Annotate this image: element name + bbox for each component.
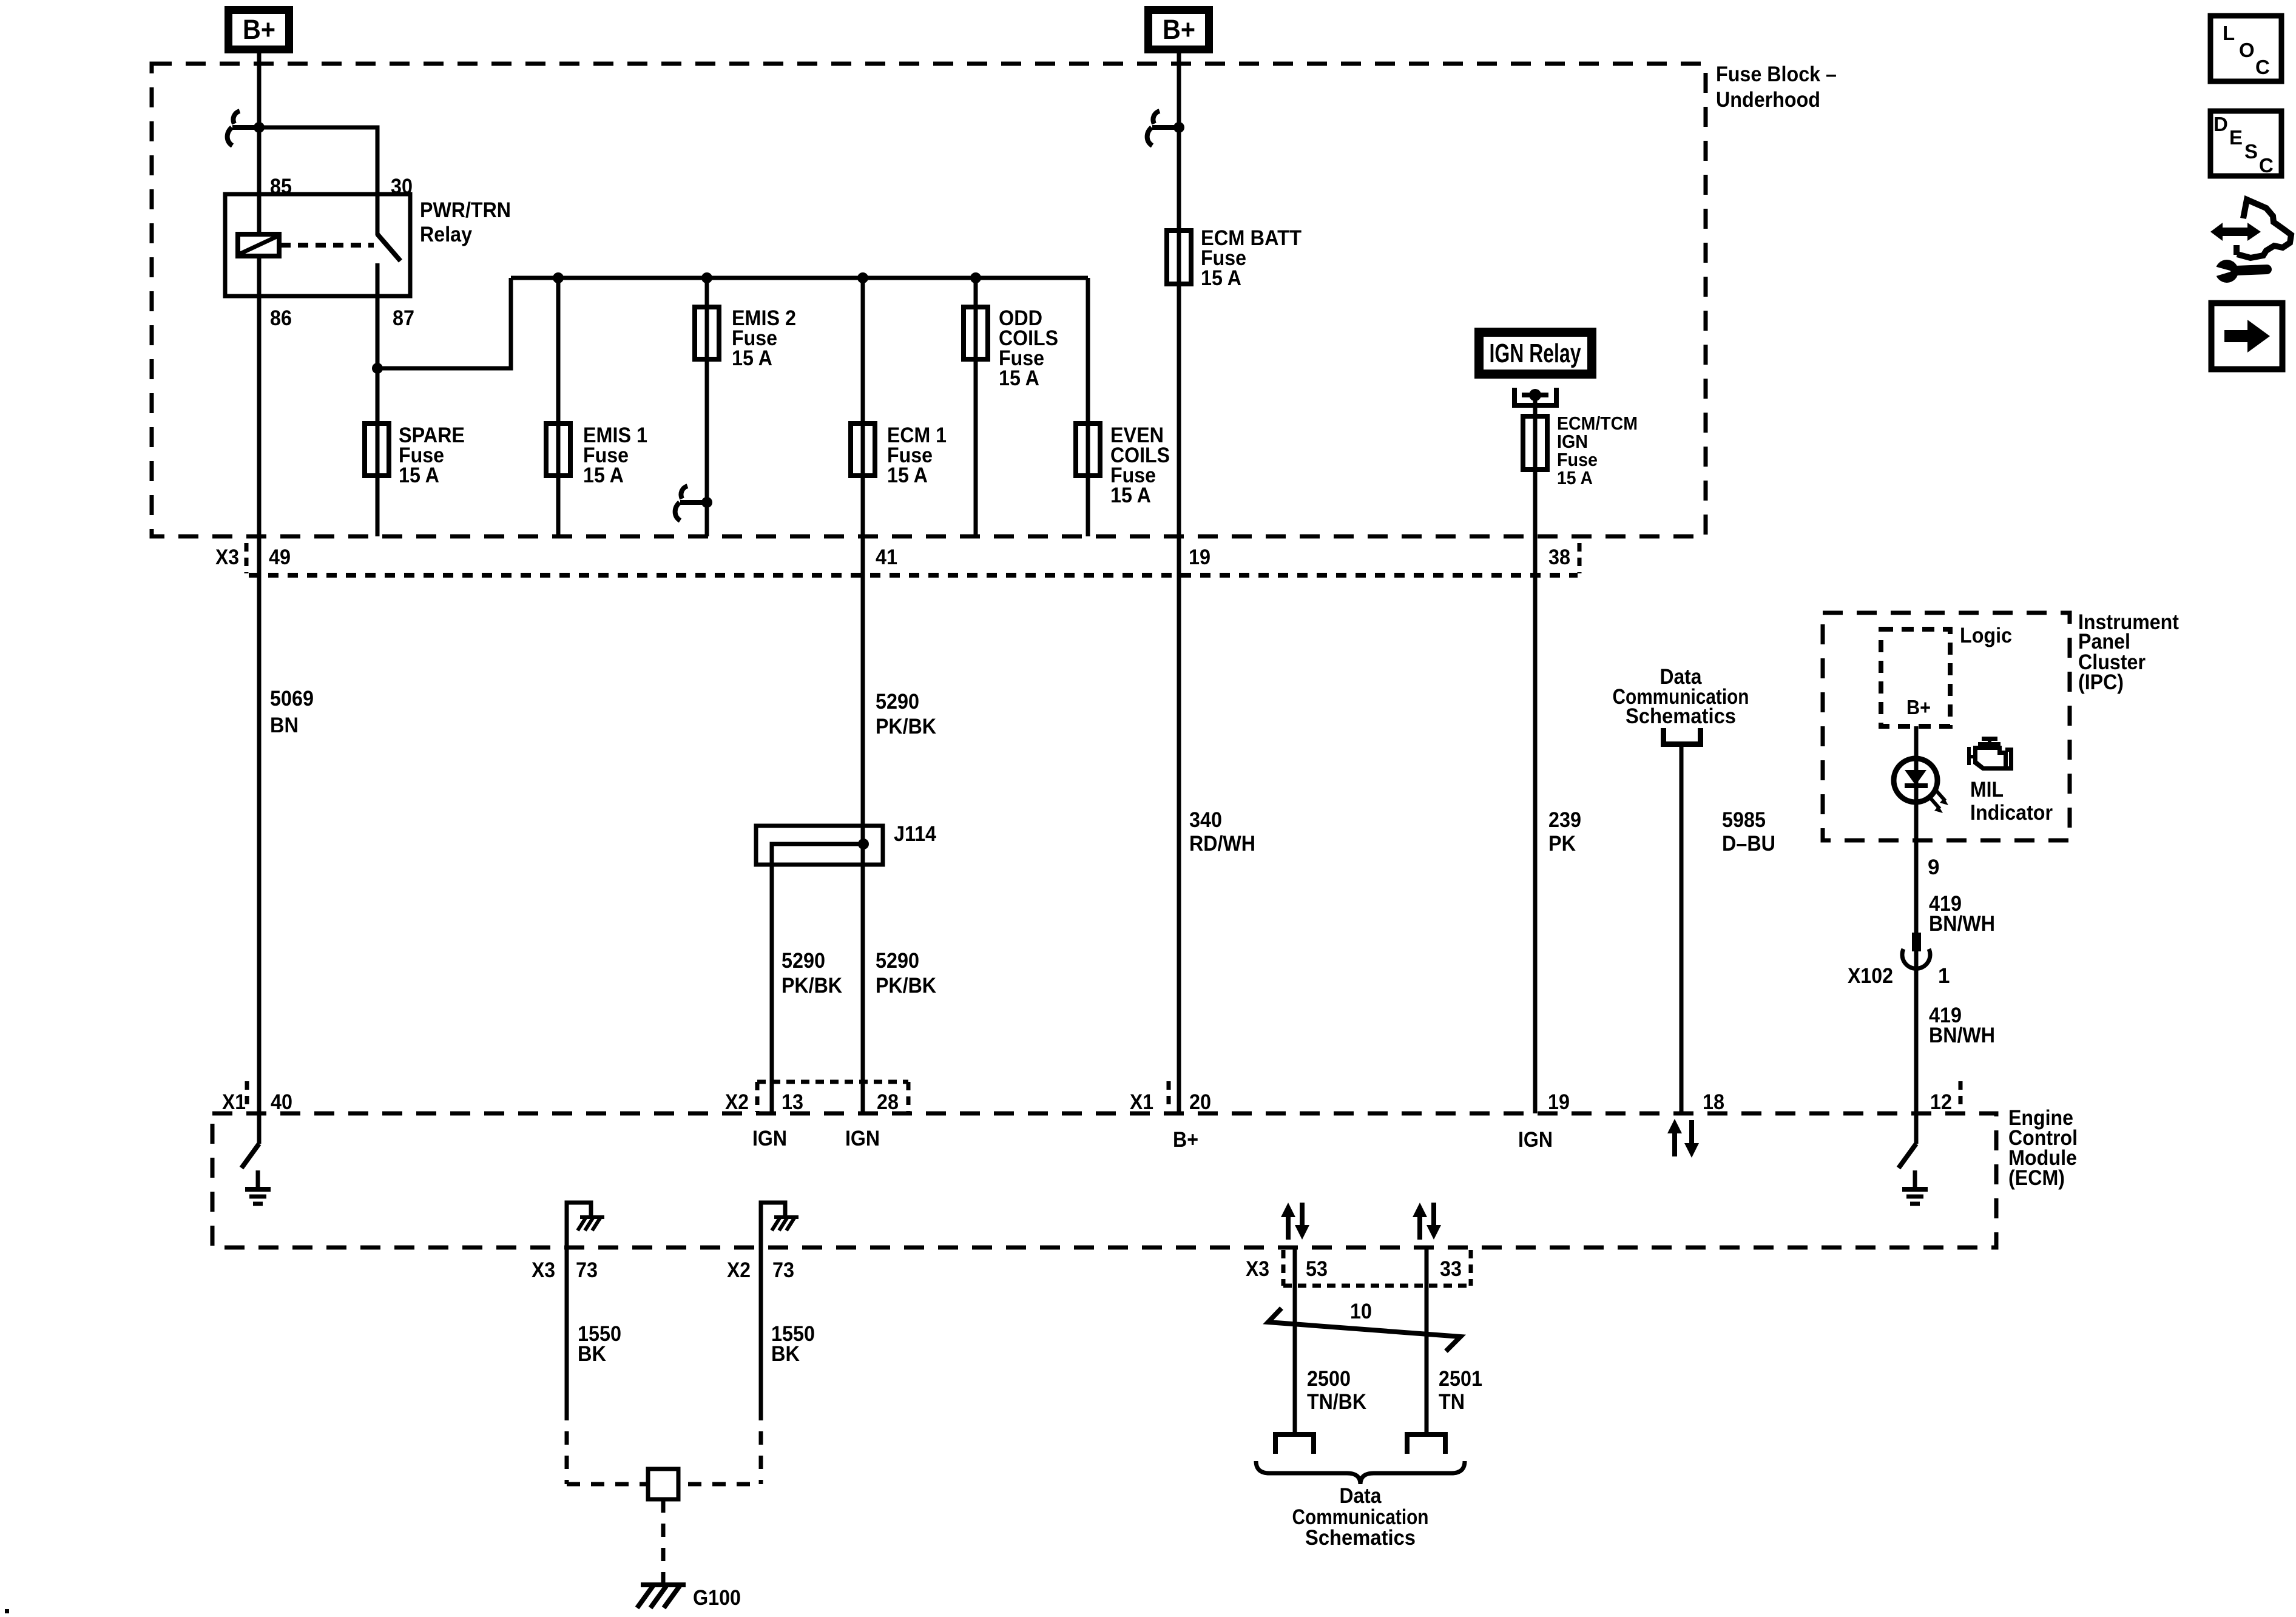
svg-text:BK: BK: [771, 1342, 800, 1366]
IPC label: [2078, 610, 2179, 694]
B+ power symbol left: [229, 10, 289, 50]
svg-text:15 A: 15 A: [583, 464, 624, 487]
IGN Relay label box: [1479, 333, 1592, 374]
svg-text:20: 20: [1189, 1090, 1211, 1114]
connector X3 fuse block output row: [215, 543, 1579, 575]
svg-text:5985: 5985: [1722, 808, 1766, 832]
ECM pin 12 label: [1930, 1081, 1960, 1114]
svg-text:MIL: MIL: [1970, 778, 2004, 802]
wire label 5290 PK/BK upper: [876, 690, 936, 738]
splice junction J114: [756, 822, 936, 1113]
twisted pair marker: [1268, 1300, 1460, 1351]
ECM label: [2008, 1106, 2078, 1190]
connector X1 pin 20: [1130, 1081, 1211, 1152]
wire bus drop EVEN COILS: [1086, 278, 1090, 536]
svg-text:86: 86: [270, 306, 292, 330]
svg-text:(IPC): (IPC): [2078, 670, 2124, 694]
wire label 5290 PK/BK lower left: [782, 949, 842, 998]
dashed ground bus to G100: [567, 1482, 761, 1487]
svg-text:5290: 5290: [782, 949, 825, 973]
svg-text:O: O: [2239, 39, 2255, 61]
wire label 239 PK: [1548, 808, 1581, 856]
svg-text:C: C: [2259, 154, 2274, 177]
relay switch blade: [377, 234, 400, 261]
svg-text:1: 1: [1938, 964, 1950, 988]
svg-text:Schematics: Schematics: [1626, 704, 1736, 728]
svg-text:X3: X3: [215, 545, 239, 569]
svg-text:PWR/TRN: PWR/TRN: [420, 198, 511, 222]
svg-text:G100: G100: [693, 1586, 741, 1610]
MIL LED indicator: [1894, 758, 1948, 813]
wire label 5985 D-BU: [1722, 808, 1775, 856]
IGN relay contact bracket: [1514, 388, 1556, 405]
svg-text:X2: X2: [725, 1090, 749, 1114]
fuse EMIS 1 15A: [546, 424, 647, 487]
wire circuit 5985 D-BU to ECM pin 18: [1680, 746, 1684, 1113]
fuse block label: [1716, 62, 1837, 112]
MIL engine icon: [1967, 737, 2013, 771]
svg-text:X1: X1: [222, 1090, 246, 1114]
fuse ECM/TCM IGN 15A: [1523, 413, 1638, 488]
CAN data arrows at ECM pin 33: [1413, 1203, 1441, 1240]
connector X2 pins 13 28: [725, 1082, 908, 1150]
wire label 5290 PK/BK lower right: [876, 949, 936, 998]
svg-text:IGN Relay: IGN Relay: [1490, 339, 1581, 368]
svg-text:D–BU: D–BU: [1722, 832, 1775, 856]
svg-text:IGN: IGN: [752, 1127, 787, 1150]
MIL indicator label: [1970, 778, 2053, 825]
svg-text:85: 85: [270, 175, 292, 198]
wire label 340 RD/WH: [1189, 808, 1255, 856]
clip splice on left B+ wire: [228, 111, 259, 146]
svg-text:E: E: [2229, 126, 2243, 149]
svg-text:IGN: IGN: [845, 1127, 880, 1150]
fuse EMIS 2 15A: [695, 306, 796, 370]
svg-text:12: 12: [1930, 1090, 1952, 1114]
svg-text:S: S: [2244, 140, 2258, 163]
wire IGN relay output circuit 239 PK to ECM pin 19: [1533, 395, 1538, 1113]
relay coil: [238, 234, 279, 256]
svg-text:PK/BK: PK/BK: [876, 974, 936, 998]
forward arrow legend box: [2212, 303, 2283, 370]
page dot: [5, 1609, 9, 1613]
svg-text:10: 10: [1350, 1300, 1372, 1323]
svg-text:X3: X3: [532, 1258, 555, 1282]
wire bus drop ECM 1 circuit 5290: [861, 278, 865, 1113]
svg-text:5069: 5069: [270, 687, 314, 711]
svg-text:15 A: 15 A: [1110, 484, 1151, 507]
svg-text:239: 239: [1548, 808, 1581, 832]
svg-text:PK/BK: PK/BK: [782, 974, 842, 998]
car diagnostic icon: [2208, 200, 2291, 283]
inline connector X102: [1848, 933, 1950, 988]
fuse ECM BATT 15A: [1167, 226, 1302, 290]
serial data arrows at pin 18: [1667, 1119, 1699, 1158]
CAN data arrows at ECM pin 53: [1281, 1203, 1309, 1240]
ground symbol pin 40: [245, 1170, 271, 1204]
svg-text:15 A: 15 A: [1557, 467, 1593, 488]
wire labels 2500 TN/BK: [1307, 1367, 1366, 1414]
svg-text:30: 30: [391, 175, 413, 198]
instrument panel cluster dashed box: [1823, 613, 2070, 840]
svg-text:Schematics: Schematics: [1305, 1526, 1416, 1550]
svg-text:5290: 5290: [876, 690, 919, 714]
svg-text:15 A: 15 A: [887, 464, 928, 487]
wire label 419 BN/WH lower: [1929, 1004, 1995, 1047]
data communication schematics header: [1613, 665, 1749, 728]
junction node EMIS 2 clip: [701, 497, 712, 508]
svg-text:19: 19: [1189, 545, 1210, 569]
wire label 5069 BN: [270, 687, 314, 737]
wire 1550 BK left: [567, 1247, 621, 1484]
off-page bracket CAN high: [1275, 1434, 1314, 1454]
svg-text:X102: X102: [1848, 964, 1893, 988]
svg-text:X3: X3: [1246, 1257, 1269, 1281]
svg-text:IGN: IGN: [1518, 1128, 1553, 1152]
svg-text:(ECM): (ECM): [2008, 1166, 2065, 1190]
wire bus drop ODD COILS: [974, 278, 978, 536]
connector X1 pin 40: [222, 1081, 292, 1114]
svg-text:49: 49: [269, 545, 291, 569]
logic dashed box: [1881, 624, 2012, 726]
wire label 419 BN/WH upper: [1929, 892, 1995, 936]
svg-text:2501: 2501: [1439, 1367, 1482, 1391]
ECM ground pin X3 73 chassis symbol: [567, 1203, 604, 1247]
svg-text:B+: B+: [1906, 696, 1931, 718]
svg-text:2500: 2500: [1307, 1367, 1351, 1391]
G100 chassis ground symbol: [637, 1585, 741, 1610]
data communication schematics footer: [1292, 1484, 1429, 1550]
junction node right B+: [1173, 122, 1184, 133]
svg-text:BN/WH: BN/WH: [1929, 1024, 1995, 1047]
dashed drop to G100 ground: [661, 1499, 666, 1582]
G100 splice box: [648, 1469, 678, 1499]
wire MIL drive circuit 419 BN/WH: [1914, 726, 1919, 1113]
DESC legend box: [2210, 111, 2281, 177]
junction node bus EMIS 2: [701, 272, 712, 283]
ECM internal switch to ground at pin 12: [1899, 1113, 1916, 1168]
svg-text:Relay: Relay: [420, 223, 472, 246]
svg-text:B+: B+: [243, 14, 275, 45]
svg-text:RD/WH: RD/WH: [1189, 832, 1255, 856]
wire B+ left feed circuit 5069 BN down to ECM pin 40: [257, 53, 262, 1113]
svg-text:X2: X2: [727, 1258, 751, 1282]
svg-text:73: 73: [576, 1258, 598, 1282]
relay actuator dashed link: [280, 243, 374, 248]
svg-text:J114: J114: [894, 822, 936, 846]
svg-text:28: 28: [877, 1090, 899, 1114]
connector labels X3 73 and X2 73: [532, 1258, 794, 1282]
fuse ECM 1 15A: [851, 424, 947, 487]
svg-text:Fuse Block –: Fuse Block –: [1716, 62, 1837, 86]
svg-text:15 A: 15 A: [1201, 266, 1241, 290]
svg-text:9: 9: [1928, 856, 1939, 879]
svg-text:41: 41: [876, 545, 897, 569]
svg-text:PK: PK: [1548, 832, 1576, 856]
wire relay pin 87 down to SPARE fuse: [376, 263, 380, 536]
svg-text:15 A: 15 A: [999, 366, 1039, 390]
ECM pin 19 label: [1518, 1090, 1570, 1152]
ECM ground pin X2 73 chassis symbol: [761, 1203, 799, 1247]
svg-text:BK: BK: [578, 1342, 606, 1366]
svg-text:BN: BN: [270, 714, 299, 737]
svg-text:340: 340: [1189, 808, 1222, 832]
wire bus drop EMIS 2: [705, 278, 709, 536]
wire CAN low circuit 2501 TN: [1425, 1247, 1429, 1434]
svg-text:5290: 5290: [876, 949, 919, 973]
svg-text:D: D: [2213, 113, 2228, 135]
wire CAN high circuit 2500 TN/BK: [1293, 1247, 1297, 1434]
svg-text:C: C: [2255, 56, 2270, 78]
wire branch to fuse bus: [377, 278, 511, 368]
svg-text:TN/BK: TN/BK: [1307, 1390, 1366, 1414]
svg-text:X1: X1: [1130, 1090, 1153, 1114]
B+ power symbol right: [1149, 10, 1209, 50]
svg-text:13: 13: [782, 1090, 803, 1114]
connector X3 pins 53 33 dotted box: [1246, 1250, 1471, 1286]
svg-text:B+: B+: [1173, 1128, 1198, 1152]
svg-text:15 A: 15 A: [732, 346, 772, 370]
fuse block underhood dashed border: [152, 64, 1706, 536]
svg-text:B+: B+: [1163, 14, 1195, 45]
svg-text:40: 40: [271, 1090, 292, 1114]
svg-text:Indicator: Indicator: [1970, 801, 2053, 825]
clip splice on EMIS 2 wire: [675, 486, 707, 521]
ground symbol pin 12: [1902, 1170, 1928, 1204]
svg-text:15 A: 15 A: [399, 464, 439, 487]
relay PWR/TRN box: [225, 194, 410, 296]
svg-text:BN/WH: BN/WH: [1929, 912, 1995, 936]
off-page bracket CAN low: [1407, 1434, 1445, 1454]
svg-text:53: 53: [1306, 1257, 1328, 1281]
wire bus drop EMIS 1: [556, 278, 561, 536]
off-page bracket for 5985: [1664, 728, 1701, 744]
LOC legend box: [2210, 16, 2281, 81]
svg-text:18: 18: [1703, 1090, 1724, 1114]
junction node bus ECM 1: [857, 272, 868, 283]
svg-text:38: 38: [1548, 545, 1570, 569]
relay pin labels: [270, 175, 511, 330]
clip splice on right B+ wire: [1147, 111, 1179, 146]
brace data communication: [1256, 1461, 1465, 1484]
svg-text:TN: TN: [1439, 1390, 1465, 1414]
wire B+ right feed circuit 340 RD/WH down to ECM pin 20: [1177, 53, 1181, 1113]
svg-text:87: 87: [393, 306, 414, 330]
junction node pin 87 branch: [372, 363, 383, 374]
svg-text:Logic: Logic: [1960, 624, 2012, 647]
wire junction to relay pin 30: [259, 127, 377, 235]
junction node bus ODD COILS: [970, 272, 981, 283]
wire 1550 BK right: [761, 1247, 815, 1484]
ECM internal switch to ground at pin 40: [241, 1113, 259, 1168]
wire labels 2501 TN: [1439, 1367, 1482, 1414]
svg-text:Underhood: Underhood: [1716, 88, 1820, 112]
junction node bus EMIS 1: [553, 272, 564, 283]
ECM dashed box: [212, 1113, 1996, 1247]
junction node relay feed: [254, 122, 265, 133]
svg-text:L: L: [2223, 22, 2235, 44]
fuse bus wire: [511, 276, 1088, 280]
svg-text:19: 19: [1548, 1090, 1570, 1114]
svg-text:Data: Data: [1340, 1484, 1382, 1508]
svg-text:PK/BK: PK/BK: [876, 715, 936, 738]
fuse SPARE 15A: [365, 424, 465, 487]
fuse EVEN COILS 15A: [1076, 424, 1170, 507]
fuse ODD COILS 15A: [964, 306, 1058, 390]
svg-text:73: 73: [772, 1258, 794, 1282]
svg-text:33: 33: [1440, 1257, 1462, 1281]
